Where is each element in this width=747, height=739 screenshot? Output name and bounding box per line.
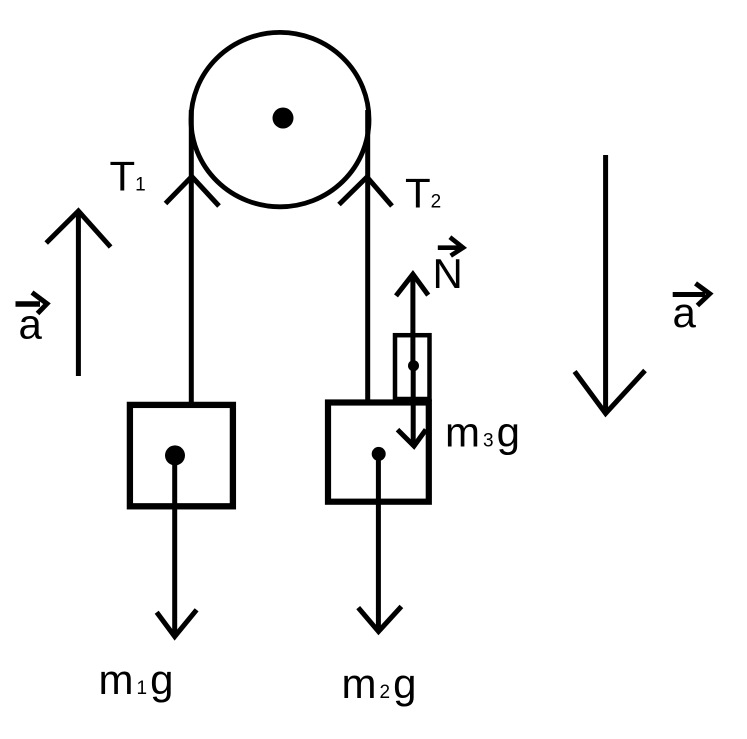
m2 weight arrow [376,454,381,628]
svg-text:a: a [19,301,43,348]
right acceleration arrow down [603,155,608,411]
m1 center dot [165,445,185,465]
wire left rope [189,110,194,405]
N vector label [438,245,459,250]
svg-text:N: N [433,250,463,297]
left acceleration arrow up [76,213,81,376]
right rope tension chevron [339,177,392,206]
block m3 [395,335,430,399]
left rope tension chevron [166,177,220,207]
block m1 [130,405,233,506]
normal force arrow N [410,276,415,364]
m1 weight arrow [172,455,177,633]
svg-text:a: a [673,289,697,336]
right a vector label [673,292,705,297]
m2 center dot [372,447,386,461]
wire right rope [365,110,370,405]
left a vector label [16,301,41,307]
m3 center dot [408,360,419,371]
pulley axle dot [273,108,294,129]
m3 weight arrow m3g [411,366,416,443]
block m2 [328,403,429,502]
pulley P1 [191,32,369,206]
